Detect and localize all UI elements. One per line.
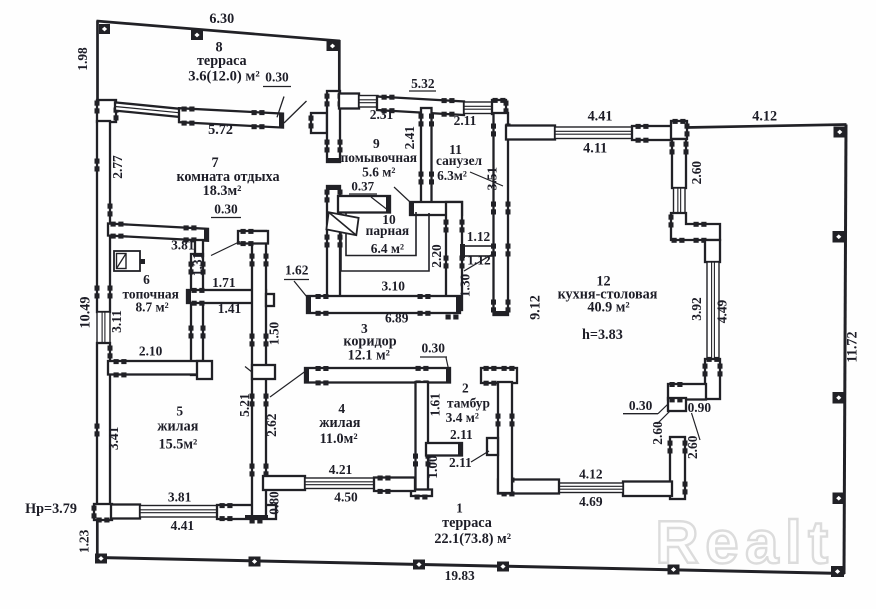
kitchen east wall step block [671,213,720,240]
svg-text:санузел: санузел [436,153,483,168]
window 3.92/4.49 kitchen east [707,262,719,359]
svg-text:1.23: 1.23 [77,529,92,553]
svg-text:4.69: 4.69 [579,494,603,509]
svg-text:1.31: 1.31 [190,253,205,276]
svg-text:жилая: жилая [319,415,361,431]
window 4.12/4.69 kitchen south [559,483,623,493]
svg-text:2.60: 2.60 [650,421,665,445]
terrace outline bottom edge [97,558,845,574]
connector nub left [460,244,465,258]
svg-text:1.30: 1.30 [458,273,473,297]
wall end cap 6.89 left [307,296,311,312]
svg-text:5.6 м²: 5.6 м² [362,165,395,180]
door leaf corridor to room4 [270,372,305,398]
post terrace8 corner [99,24,110,34]
post bottom 2 [249,557,261,567]
post terrace8 right [327,41,339,51]
tambour east wall [498,382,512,493]
leader 0.37 [371,197,389,211]
svg-text:2.60: 2.60 [685,435,700,459]
svg-text:2.62: 2.62 [264,413,279,437]
svg-text:тамбур: тамбур [447,395,490,410]
post terrace8 mid [191,30,203,40]
terrace outline top-right edge [686,125,847,128]
svg-text:2: 2 [462,380,469,395]
wall divider room9/room11 [421,108,432,214]
svg-text:10.49: 10.49 [77,297,93,329]
svg-text:2.77: 2.77 [110,155,125,179]
tambour inner south wall 2.11 [426,443,462,456]
svg-text:11.0м²: 11.0м² [320,431,358,447]
svg-text:терраса: терраса [197,53,247,69]
svg-text:1.41: 1.41 [218,301,241,316]
wall room9/room10 right piece [410,202,462,215]
svg-text:3.41: 3.41 [106,427,121,450]
svg-text:11.72: 11.72 [844,331,860,362]
south wall room 5 left piece [111,505,140,519]
svg-text:4.12: 4.12 [579,466,603,481]
wall end cap 2.11 [458,443,462,455]
connector nub right [494,244,499,258]
svg-text:2.41: 2.41 [402,126,417,149]
kitchen south-east corner wall vertical [670,437,685,499]
svg-text:1.71: 1.71 [212,275,235,290]
post bottom 5 [668,565,680,575]
svg-text:4.50: 4.50 [334,490,358,505]
kitchen SE step [668,398,686,411]
window 2.11 sanuzel north [464,102,492,114]
parnaya stove diagonal [329,212,357,235]
svg-text:6.4 м²: 6.4 м² [371,241,404,256]
tambour east wall top cap [481,368,517,383]
window 3.81/4.41 south [140,506,217,518]
kitchen SE wall horizontal piece [668,384,706,400]
svg-text:3.4 м²: 3.4 м² [446,410,479,425]
wall end cap [279,114,283,128]
svg-text:1: 1 [456,501,463,516]
svg-text:3.81: 3.81 [171,238,194,253]
connector wall 1.12 sanuzel south [462,246,497,256]
svg-text:3.51: 3.51 [485,167,500,190]
svg-text:6.89: 6.89 [385,311,409,326]
wall end cap sauna west [328,158,340,162]
post SE corner [831,566,844,577]
svg-text:жилая: жилая [157,418,199,434]
leader 2.60 b [692,413,701,440]
svg-text:4: 4 [338,401,345,416]
slash over 1.12 [464,255,492,272]
wall end cap 9/10 [410,202,414,214]
wall end cap 3.81 [204,229,208,241]
leader 6.3 [470,172,503,186]
wall tab right of divider [266,294,274,306]
kitchen south wall right piece [623,482,672,497]
tambour west wall bottom cap [411,490,432,497]
terrace 8 outline top edge [97,21,341,41]
west wall upper [97,121,110,312]
svg-text:22.1(73.8) м²: 22.1(73.8) м² [434,531,511,547]
parnaya east wall [446,202,462,310]
parnaya stove/door symbol [326,212,358,235]
kitchen south wall left piece [498,480,559,494]
post bottom 1 [95,554,107,564]
svg-text:6: 6 [143,272,150,287]
svg-text:1.00: 1.00 [425,455,440,479]
kitchen SE wall piece [705,359,720,399]
room4 south wall left piece [263,476,305,490]
window 3.11 west [97,312,110,343]
leader 1.31 to cap [211,242,240,256]
svg-text:2.11: 2.11 [450,427,473,442]
wall junction bump 2.10 [197,361,212,379]
svg-text:0.30: 0.30 [629,398,653,413]
svg-text:4.11: 4.11 [583,140,607,156]
wall end cap 1.71 [187,290,191,302]
svg-text:4.41: 4.41 [171,518,194,533]
svg-text:19.83: 19.83 [445,568,475,583]
svg-text:12.1 м²: 12.1 м² [348,348,390,364]
leader 2.60 a [657,411,670,424]
kitchen north wall left piece [506,126,555,140]
sauna west wall lower [327,186,340,298]
svg-text:2.11: 2.11 [454,113,477,128]
terrace 8 outline right edge [338,40,341,95]
wall stub left of sauna [311,113,327,133]
wall end cap divider 9/11 [421,210,431,214]
svg-text:0.30: 0.30 [421,340,445,355]
svg-text:помывочная: помывочная [341,150,417,165]
leader 0.30 tambour [446,358,449,370]
boiler in room 6 [114,251,145,271]
svg-text:1.50: 1.50 [267,321,282,345]
wall leg below 3.81 end [195,240,203,256]
window 5.72 left part inner line [115,107,180,113]
svg-text:h=3.83: h=3.83 [582,327,623,343]
post bottom 3 [413,560,425,570]
post NE corner [834,127,847,138]
post right lower [833,493,846,505]
svg-text:4.41: 4.41 [588,108,613,124]
sauna west wall upper [327,91,340,162]
svg-text:терраса: терраса [442,515,492,531]
svg-text:1.62: 1.62 [285,263,309,278]
wall end cap divider bottom [245,515,268,519]
door leaf tambour [471,451,489,462]
svg-text:9: 9 [373,136,380,151]
wall 2.10 room6 south [108,361,203,375]
svg-text:парная: парная [366,223,410,238]
svg-text:2.31: 2.31 [370,107,393,122]
terrace outline left-bottom stub [96,520,99,558]
svg-text:1.98: 1.98 [75,47,90,71]
wall end cap sauna west lower [328,186,340,190]
window sauna north small [359,96,378,108]
post right middle [833,392,846,404]
wall end cap 6.89 right [456,296,460,312]
leader 0.30 kitchen [658,404,668,414]
tambour west wall / room4 east [416,382,429,490]
svg-text:0.90: 0.90 [688,400,712,415]
svg-text:Realt: Realt [655,509,834,576]
wall X topochnaya east [191,254,203,375]
west-center wall 9.12 [494,113,509,315]
svg-text:5: 5 [176,404,183,419]
svg-text:3.92: 3.92 [689,297,704,321]
wall end cap corridor left [305,368,309,382]
svg-text:3.81: 3.81 [168,490,191,505]
parnaya lining outer loop [341,212,429,271]
svg-text:4.49: 4.49 [714,299,729,323]
svg-text:0.37: 0.37 [351,178,374,193]
svg-text:8.7 м²: 8.7 м² [135,300,168,315]
wall corner block NW of kitchen [492,100,506,114]
window 5.72 left part [115,102,180,117]
window 4.41 kitchen north [555,127,632,139]
sauna north wall piece 2 [377,97,464,116]
svg-text:Нр=3.79: Нр=3.79 [25,501,77,517]
svg-text:18.3м²: 18.3м² [203,183,242,199]
parnaya lining inner loop [346,212,416,256]
tambour east wall tab [487,438,498,455]
leader 5.6 [394,187,410,202]
svg-text:0.30: 0.30 [265,70,289,85]
svg-text:5.21: 5.21 [237,393,252,416]
svg-text:15.5м²: 15.5м² [159,437,198,453]
wall cap above divider [238,231,268,244]
leader 0.30 terrace a [277,97,284,118]
wall stub right of divider at corridor [252,365,275,379]
leader 0.30 terrace b [284,101,307,123]
kitchen east wall below step [705,240,720,262]
svg-text:6.3м²: 6.3м² [437,168,467,183]
svg-text:6.30: 6.30 [209,11,234,27]
svg-text:40.9 м²: 40.9 м² [587,300,629,316]
wall SW corner block [94,504,112,520]
post right upper [833,231,846,243]
wall 3.81 room6/room7 [108,224,208,241]
svg-text:1.61: 1.61 [428,393,443,416]
kitchen east wall upper [672,139,686,188]
svg-text:2.11: 2.11 [449,455,472,470]
south wall room 5 right piece [217,505,276,519]
leader 1.62 [294,281,307,297]
svg-text:5.72: 5.72 [208,122,233,138]
wall end cap corridor right [446,368,450,382]
svg-text:2.20: 2.20 [429,244,444,268]
wall 1.71/1.41 [187,290,266,303]
svg-text:4.12: 4.12 [752,108,777,124]
west wall lower [97,343,110,505]
sauna north wall piece 1 [339,94,359,109]
window 2.60 kitchen east [674,188,686,213]
svg-text:2.10: 2.10 [139,344,163,359]
svg-text:4.21: 4.21 [329,462,352,477]
svg-text:3.6(12.0) м²: 3.6(12.0) м² [188,68,260,84]
wall 6.89 south of sauna [307,296,460,313]
post bottom 4 [497,562,509,572]
svg-text:0.30: 0.30 [214,202,238,217]
terrace 8 outline left edge [96,21,99,102]
svg-text:1.12: 1.12 [467,229,491,244]
svg-text:1.12: 1.12 [467,253,491,268]
svg-text:2.60: 2.60 [689,161,704,185]
leader 0.30 room5 divider [245,367,253,373]
wall end cap 9.12 bottom [494,311,508,315]
wall NW corner block [97,100,116,122]
wall vertical room5/corridor divider [252,231,266,518]
wall end cap 0.37 [386,196,390,212]
svg-text:0.80: 0.80 [267,491,282,515]
wall 0.37 parnaya north [338,196,390,213]
svg-text:9.12: 9.12 [528,295,544,320]
corridor south wall / tambour north [305,368,450,383]
kitchen north wall right piece [632,126,672,140]
terrace outline right edge [844,125,846,575]
room4 south wall right piece [374,478,415,492]
svg-text:5.32: 5.32 [411,76,435,91]
window 4.21/4.50 room4 south [305,478,374,489]
svg-text:3.10: 3.10 [381,279,405,294]
svg-text:3.11: 3.11 [109,310,124,333]
wall north of room 7 [179,108,283,127]
kitchen NE corner block [671,121,687,139]
